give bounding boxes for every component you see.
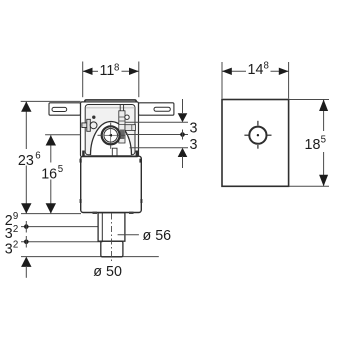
svg-text:3: 3 <box>190 120 198 136</box>
svg-text:3: 3 <box>5 226 13 242</box>
svg-text:8: 8 <box>114 63 119 74</box>
svg-text:ø 56: ø 56 <box>143 228 172 244</box>
svg-text:5: 5 <box>58 164 63 175</box>
svg-text:3: 3 <box>190 137 198 153</box>
svg-text:8: 8 <box>264 60 269 71</box>
svg-text:5: 5 <box>321 134 326 145</box>
svg-text:11: 11 <box>100 63 115 79</box>
svg-text:16: 16 <box>41 166 57 182</box>
svg-text:2: 2 <box>13 240 18 251</box>
svg-text:14: 14 <box>248 62 264 78</box>
svg-text:3: 3 <box>5 242 13 258</box>
svg-text:2: 2 <box>13 224 18 235</box>
svg-text:18: 18 <box>305 137 321 153</box>
svg-text:6: 6 <box>35 151 40 162</box>
svg-text:ø 50: ø 50 <box>93 264 122 280</box>
svg-text:23: 23 <box>18 153 34 169</box>
svg-text:9: 9 <box>13 211 18 222</box>
